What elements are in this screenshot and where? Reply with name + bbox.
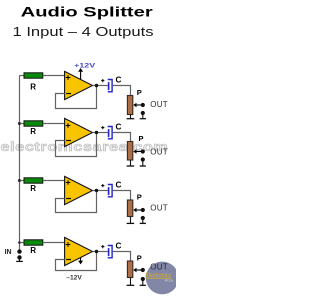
wire pot ground stub 2 [130, 160, 132, 166]
potentiometer P3 [127, 200, 132, 217]
watermark logo circle [145, 262, 178, 295]
svg-text:+12V: +12V [74, 62, 96, 69]
pin + input U1 [66, 75, 71, 80]
svg-text:Audio Splitter: Audio Splitter [21, 5, 154, 21]
node IN terminal signal [17, 249, 21, 253]
wire pot ground stub 1 [130, 115, 132, 119]
svg-text:R: R [30, 127, 36, 136]
wire C2 to pot [113, 133, 131, 142]
ground IN bar [16, 260, 23, 262]
pin + input U2 [66, 123, 71, 128]
svg-text:1 Input – 4 Outputs: 1 Input – 4 Outputs [13, 24, 155, 39]
wire sleeve ground stub 2 [142, 160, 144, 166]
wire feedback loop U1 [56, 86, 97, 109]
wire bus to R1 [20, 75, 25, 77]
wire IN ground stub [19, 257, 21, 261]
svg-text:OUT: OUT [150, 148, 168, 157]
node jack sleeve 1 [141, 111, 145, 115]
potentiometer P4 [127, 261, 132, 278]
wire bus to R4 [20, 242, 25, 244]
svg-text:R: R [30, 83, 36, 92]
node output junction 3 [95, 189, 98, 192]
wire pot ground stub 3 [130, 217, 132, 224]
svg-text:Area: Area [164, 278, 174, 283]
wire sleeve ground stub 3 [142, 218, 144, 223]
wire feedback loop U4 [56, 252, 97, 271]
svg-text:OUT: OUT [150, 100, 168, 109]
resistor R3 [24, 178, 43, 183]
ground sleeve bar 3 [140, 222, 146, 224]
svg-text:P: P [137, 254, 142, 263]
node jack tip 3 [141, 208, 145, 212]
node bus tap 3 [18, 179, 21, 182]
capacitor C4 polarity + [101, 245, 104, 248]
node jack sleeve 4 [141, 277, 145, 281]
potentiometer P1 [127, 96, 132, 115]
wire R2 to op-amp [43, 123, 65, 125]
capacitor C1 [108, 80, 112, 92]
wire feedback loop U2 [56, 133, 97, 157]
svg-text:IN: IN [5, 249, 12, 256]
svg-text:–12V: –12V [66, 275, 82, 282]
wire C1 to pot [113, 86, 131, 96]
svg-text:OUT: OUT [150, 204, 168, 213]
wire bus to R2 [20, 123, 25, 125]
wiper arrow P2 [133, 149, 141, 153]
wire R1 to op-amp [43, 75, 65, 77]
pin + input U3 [66, 180, 71, 185]
wiper arrow P3 [133, 208, 141, 212]
wire C3 to pot [113, 191, 131, 201]
wire U4 output [93, 251, 108, 253]
wire R3 to op-amp [43, 180, 65, 182]
wire pot ground stub 4 [130, 278, 132, 285]
node jack tip 1 [141, 103, 145, 107]
svg-text:C: C [116, 180, 122, 189]
pin - input U3 [66, 198, 71, 200]
capacitor C3 [108, 185, 112, 197]
node output junction 2 [95, 131, 98, 134]
svg-text:C: C [116, 241, 122, 250]
wire U1 output [93, 85, 108, 87]
ground sleeve bar 1 [140, 118, 146, 120]
wire bus to R3 [20, 180, 25, 182]
wire sleeve ground stub 4 [142, 279, 144, 285]
svg-text:R: R [30, 184, 36, 193]
resistor R4 [24, 240, 43, 245]
svg-text:C: C [116, 75, 122, 84]
capacitor C1 polarity + [101, 79, 104, 82]
wire U3 output [93, 190, 108, 192]
pin - input U2 [66, 140, 71, 142]
node jack sleeve 3 [141, 216, 145, 220]
power -12V arrow U4 [80, 257, 82, 261]
potentiometer P2 [127, 142, 132, 161]
op-amp U1 [65, 71, 93, 99]
node jack tip 2 [141, 149, 145, 153]
svg-text:P: P [137, 193, 142, 202]
svg-text:P: P [137, 88, 142, 97]
wire C4 to pot [113, 252, 131, 262]
ground pot bar 3 [127, 222, 135, 224]
pin + input U4 [66, 242, 71, 247]
ground pot bar 1 [127, 118, 135, 120]
wire feedback loop U3 [56, 191, 97, 213]
op-amp U4 [65, 237, 93, 265]
capacitor C2 polarity + [101, 126, 104, 129]
power +12V arrow U1 [80, 71, 82, 79]
node output junction 4 [95, 250, 98, 253]
ground sleeve bar 4 [140, 284, 146, 286]
node output junction 1 [95, 84, 98, 87]
svg-text:P: P [138, 134, 143, 143]
op-amp U2 [65, 118, 93, 146]
ground pot bar 4 [127, 284, 135, 286]
wire sleeve ground stub 1 [142, 113, 144, 118]
svg-text:R: R [30, 246, 36, 255]
wiper arrow P1 [133, 103, 141, 107]
ground pot bar 2 [127, 165, 135, 167]
wire input bus [19, 76, 21, 252]
capacitor C2 [108, 127, 112, 139]
op-amp U3 [65, 176, 93, 204]
capacitor C4 [108, 246, 112, 258]
pin - input U4 [66, 259, 71, 261]
wire R4 to op-amp [43, 242, 65, 244]
wiper arrow P4 [133, 268, 141, 272]
resistor R2 [24, 121, 43, 126]
node jack tip 4 [141, 268, 145, 272]
resistor R1 [24, 73, 43, 78]
node IN terminal ground [17, 255, 21, 259]
svg-text:OUT: OUT [150, 262, 168, 271]
pin - input U1 [66, 93, 71, 95]
node jack sleeve 2 [141, 157, 145, 161]
ground sleeve bar 2 [140, 165, 146, 167]
node bus tap 4 [18, 241, 21, 244]
wire U2 output [93, 132, 108, 134]
svg-text:C: C [116, 122, 122, 131]
node bus tap 2 [18, 122, 21, 125]
capacitor C3 polarity + [101, 184, 104, 187]
